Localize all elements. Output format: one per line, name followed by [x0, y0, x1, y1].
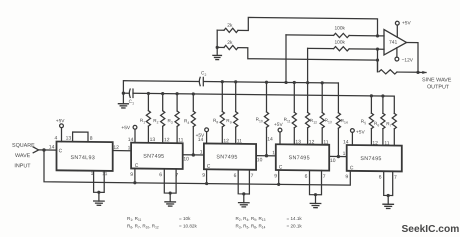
- svg-text:11: 11: [178, 137, 183, 143]
- svg-text:C: C: [350, 165, 354, 171]
- wire: IC1 pins 13-8 jumper loop: [73, 132, 88, 142]
- resistor R6: [374, 96, 385, 146]
- node: output/feedback junction: [416, 71, 419, 74]
- svg-text:1: 1: [128, 145, 131, 151]
- svg-text:7: 7: [251, 173, 254, 179]
- pin label IC4 9 / C: [274, 164, 282, 179]
- svg-text:2: 2: [205, 73, 207, 77]
- note: resistor values right column: [236, 216, 303, 230]
- svg-text:9: 9: [130, 172, 133, 178]
- node: row C joins feedback vertical: [376, 59, 379, 62]
- svg-text:1: 1: [91, 171, 94, 177]
- power +5V terminal (IC1 pin 4): [56, 118, 65, 141]
- svg-text:= 10.82k: = 10.82k: [179, 224, 197, 229]
- wire: IC4 pin10 to IC5 pin1: [329, 155, 347, 157]
- ground (C1): [118, 93, 128, 108]
- node: -input junction: [376, 48, 379, 51]
- pin labels IC1-IC2 link: [113, 145, 130, 151]
- svg-text:6: 6: [159, 172, 162, 178]
- svg-text:2k: 2k: [227, 40, 233, 46]
- svg-text:4: 4: [187, 121, 189, 125]
- svg-text:100k: 100k: [335, 25, 346, 31]
- svg-text:7: 7: [323, 174, 326, 180]
- svg-text:12: 12: [113, 145, 119, 151]
- svg-text:OUTPUT: OUTPUT: [427, 84, 450, 90]
- capacitor C1: [123, 89, 134, 105]
- pin labels IC4 top 13,12,11: [295, 139, 328, 145]
- pin labels IC1 bottom: [91, 171, 108, 177]
- IC U1 SN74L93: [57, 142, 113, 171]
- svg-text:13: 13: [66, 136, 72, 142]
- pin labels IC1 top: [55, 135, 93, 141]
- svg-text:= 14.1k: = 14.1k: [287, 216, 303, 221]
- svg-text:9: 9: [345, 174, 348, 180]
- wire: 2k left common vertical: [216, 30, 218, 47]
- svg-text:2: 2: [157, 121, 159, 125]
- svg-text:6: 6: [379, 175, 382, 181]
- node: +input junction: [376, 34, 379, 37]
- svg-text:6: 6: [234, 173, 237, 179]
- pin labels IC3 top 12,11: [223, 138, 242, 144]
- pin labels IC5 top 12,11: [372, 140, 389, 146]
- wire: IC2 pin 9 to rail: [134, 168, 136, 182]
- IC U3 SN7495: [204, 143, 256, 169]
- node: R10 tap: [265, 154, 268, 157]
- svg-text:SeekIC.com: SeekIC.com: [402, 224, 460, 235]
- svg-text:3: 3: [171, 121, 173, 125]
- wire: IC4 pins 6,7 to ground: [310, 170, 322, 194]
- pin labels IC2 top 13,12,11: [150, 137, 184, 143]
- node: input feedback tap: [42, 148, 45, 151]
- svg-text:2k: 2k: [227, 23, 233, 29]
- power +5V terminal (IC5 pin 14): [343, 128, 365, 145]
- resistor R14: [336, 83, 348, 157]
- wire: IC5 pins 6,7 to ground: [384, 171, 393, 195]
- svg-text:8: 8: [90, 136, 93, 142]
- IC U2 SN7495: [131, 143, 183, 169]
- wire: IC1 pins 1,11 to ground: [94, 171, 105, 193]
- svg-text:C: C: [279, 164, 283, 170]
- wire: +input lead: [378, 35, 385, 37]
- wire: -input lead: [378, 48, 385, 50]
- wire: feedback to output node: [397, 71, 418, 73]
- resistor R12: [306, 83, 318, 145]
- svg-text:14: 14: [267, 137, 273, 143]
- node: bus B taps: [147, 92, 150, 95]
- node+ground (IC5): [383, 194, 394, 209]
- pin label IC3 9 / C: [202, 164, 210, 179]
- svg-text:WAVE: WAVE: [15, 153, 31, 159]
- resistor 2k (bottom): [217, 40, 238, 50]
- svg-text:14: 14: [49, 144, 55, 150]
- svg-text:SN7495: SN7495: [143, 154, 164, 160]
- wire: bus A (upper summing bus): [123, 81, 338, 96]
- svg-text:9: 9: [274, 173, 277, 179]
- wire: IC4 pin 9 to rail: [278, 170, 280, 184]
- resistor feedback: [379, 70, 397, 74]
- svg-text:12: 12: [164, 137, 170, 143]
- svg-text:13: 13: [328, 120, 332, 124]
- wire: upper 100k drop to bus A: [285, 35, 287, 83]
- svg-text:10: 10: [259, 119, 263, 123]
- label: SINE WAVE OUTPUT: [422, 77, 452, 90]
- svg-text:12: 12: [223, 138, 229, 144]
- svg-text:10: 10: [257, 157, 263, 163]
- wire: bottom 2k to -input run: [238, 48, 378, 72]
- svg-text:14: 14: [344, 121, 348, 125]
- wire: lower 100k drop to bus A: [307, 48, 309, 82]
- svg-text:12: 12: [309, 139, 315, 145]
- capacitor C2: [199, 70, 206, 85]
- svg-text:5: 5: [364, 121, 366, 125]
- power +5V terminal (op-amp): [395, 20, 411, 37]
- resistor R7: [386, 96, 396, 146]
- svg-text:C: C: [207, 164, 211, 170]
- IC U4 SN7495: [276, 144, 329, 170]
- svg-text:7: 7: [394, 175, 397, 181]
- svg-text:14: 14: [343, 139, 349, 145]
- svg-text:100k: 100k: [335, 40, 346, 46]
- pin label IC1 14 / C: [49, 144, 63, 154]
- svg-text:8: 8: [216, 120, 218, 124]
- node+ground (IC2): [165, 191, 176, 206]
- node+ground (IC3): [239, 192, 250, 207]
- wire: IC3 pin10 to IC4 pin1: [256, 155, 276, 157]
- svg-text:4: 4: [55, 135, 58, 141]
- svg-text:11: 11: [102, 171, 107, 177]
- svg-text:6: 6: [377, 123, 379, 127]
- resistor R4: [184, 94, 195, 155]
- pin labels IC4-IC5 link: [330, 151, 346, 164]
- node: 2k junction: [216, 46, 219, 49]
- power +5V terminal (IC3 pin 14): [196, 128, 209, 144]
- pin label IC5 9 / C: [345, 165, 353, 180]
- label: SQUARE WAVE INPUT: [12, 143, 35, 170]
- svg-text:+5V: +5V: [56, 118, 65, 124]
- svg-text:10: 10: [330, 158, 336, 164]
- svg-text:+5V: +5V: [121, 125, 130, 131]
- wire: IC1 pin12 to IC2 pin1: [113, 150, 131, 152]
- svg-text:SN7495: SN7495: [360, 156, 381, 162]
- wire: -input to feedback vertical: [377, 49, 379, 72]
- svg-text:INPUT: INPUT: [14, 163, 31, 169]
- svg-text:SINE WAVE: SINE WAVE: [422, 77, 452, 83]
- svg-text:1: 1: [272, 150, 275, 156]
- pin label IC2 9 / C: [130, 163, 138, 178]
- resistor R5: [361, 96, 374, 146]
- svg-text:12: 12: [313, 120, 317, 124]
- node: R14 tap: [337, 155, 340, 158]
- node: R4 tap: [192, 153, 195, 156]
- node+ground (IC1): [94, 191, 105, 206]
- svg-text:12: 12: [372, 140, 378, 146]
- pin labels IC5 bottom 6,7: [379, 175, 397, 181]
- svg-text:741: 741: [389, 40, 398, 46]
- svg-text:10: 10: [183, 156, 189, 162]
- pin labels IC3 bottom 6,7: [234, 173, 254, 179]
- svg-text:11: 11: [384, 141, 389, 147]
- pin labels IC4 bottom 6,7: [305, 174, 326, 180]
- pin labels IC2-IC3 link: [183, 149, 202, 162]
- svg-text:1: 1: [343, 151, 346, 157]
- note: resistor values left column: [127, 216, 197, 230]
- svg-text:+5V: +5V: [356, 129, 365, 135]
- svg-text:SN74L93: SN74L93: [71, 155, 96, 161]
- svg-text:SQUARE: SQUARE: [12, 143, 35, 149]
- resistor 100k (upper, to +input): [286, 25, 378, 38]
- svg-text:C: C: [59, 148, 63, 154]
- power +5V terminal (IC4 pin 14): [267, 122, 283, 144]
- svg-text:1: 1: [143, 120, 145, 124]
- svg-text:+5V: +5V: [402, 20, 411, 26]
- svg-text:1: 1: [132, 101, 134, 105]
- wire: IC3 pins 6,7 to ground: [238, 170, 249, 194]
- wire: IC2 pins 6,7 to ground: [164, 169, 176, 193]
- wire: top 2k to +input run: [238, 17, 378, 36]
- svg-text:7: 7: [390, 124, 392, 128]
- svg-text:SN7495: SN7495: [216, 154, 237, 160]
- power -12V terminal (op-amp): [395, 48, 414, 64]
- power +5V terminal (IC2 pin 14): [121, 125, 137, 143]
- wire: input arrow: [33, 147, 38, 153]
- wire: bus B (lower summing bus): [133, 93, 394, 96]
- wire: output arrow: [418, 71, 427, 74]
- pin labels IC2 bottom 6,7: [159, 172, 178, 178]
- svg-text:13: 13: [295, 139, 301, 145]
- resistor R3: [168, 94, 180, 144]
- resistor R1: [140, 93, 151, 143]
- svg-text:+5V: +5V: [274, 122, 283, 128]
- wire: IC3 pin 9 to rail: [206, 169, 208, 183]
- wire: feedback rail (input to IC5 pin 9): [44, 150, 350, 185]
- svg-text:14: 14: [198, 137, 204, 143]
- svg-text:7: 7: [176, 172, 179, 178]
- node: bus A / C1 / ground junction: [122, 91, 125, 94]
- svg-text:11: 11: [287, 119, 291, 123]
- resistor 2k (top): [217, 23, 238, 33]
- node: bus A taps: [221, 80, 224, 83]
- svg-text:SN7495: SN7495: [289, 155, 310, 161]
- wire: op-amp output: [407, 42, 419, 72]
- svg-text:= 20.1k: = 20.1k: [287, 224, 303, 229]
- op-amp U6 741: [384, 30, 407, 56]
- svg-text:= 10k: = 10k: [179, 216, 191, 221]
- resistor R11: [284, 82, 297, 144]
- node+ground (IC4): [310, 193, 321, 208]
- svg-text:9: 9: [202, 173, 205, 179]
- svg-text:11: 11: [237, 138, 242, 144]
- svg-text:9: 9: [230, 121, 232, 125]
- svg-text:13: 13: [150, 137, 156, 143]
- pin labels IC3-IC4 link: [257, 150, 275, 163]
- IC U5 SN7495: [347, 145, 402, 171]
- svg-text:11: 11: [323, 140, 328, 146]
- svg-text:14: 14: [128, 137, 134, 143]
- resistor R9: [226, 82, 238, 144]
- resistor R10: [256, 82, 269, 156]
- resistor R13: [320, 83, 332, 145]
- resistor R2: [153, 93, 165, 143]
- svg-text:1: 1: [200, 149, 203, 155]
- ground (2k network): [213, 47, 222, 59]
- svg-text:6: 6: [305, 174, 308, 180]
- resistor R8: [213, 82, 224, 144]
- svg-text:C: C: [135, 163, 139, 169]
- wire: input to IC1 pin 14: [39, 149, 57, 151]
- svg-text:−12V: −12V: [402, 57, 414, 63]
- wire: IC2 pin10 to IC3 pin1: [183, 154, 204, 156]
